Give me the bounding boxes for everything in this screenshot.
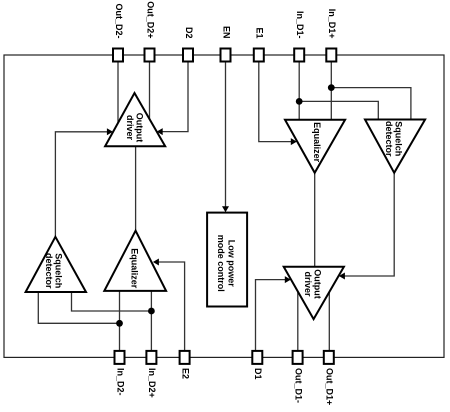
svg-text:In_D1+: In_D1+ bbox=[327, 9, 337, 39]
arrowhead E2 into equalizer U6 bbox=[153, 259, 159, 266]
chip boundary box bbox=[4, 55, 444, 357]
svg-text:Out_D2+: Out_D2+ bbox=[145, 1, 155, 38]
arrowhead squelch detector U7 into output driver U2 bbox=[107, 128, 113, 135]
wire equalizer U6 output to output driver U2 input bbox=[135, 146, 137, 230]
pin E2 bbox=[180, 351, 191, 379]
wire EN pin to low power mode control bbox=[225, 62, 227, 208]
junction In_D2+ node bbox=[148, 308, 155, 315]
pin Out_D1+ bbox=[324, 351, 335, 405]
wire equalizer U3 output to output driver U5 input bbox=[314, 173, 316, 267]
svg-text:Equalizer: Equalizer bbox=[130, 248, 140, 289]
wire E2 pin to equalizer U6 bbox=[158, 262, 185, 351]
arrowhead EN into low power mode control bbox=[222, 206, 229, 212]
svg-text:In_D1-: In_D1- bbox=[295, 11, 305, 39]
wire output driver U5 to Out_D1- pin bbox=[297, 292, 299, 351]
junction In_D1+ node bbox=[328, 84, 335, 91]
pin In_D1- bbox=[294, 11, 305, 62]
output driver U5 (channel 1, bottom-right) bbox=[284, 267, 344, 319]
svg-text:Squelchdetector: Squelchdetector bbox=[44, 253, 64, 289]
wire output driver U5 to Out_D1+ pin bbox=[328, 291, 330, 351]
junction In_D2- node bbox=[116, 320, 123, 327]
svg-text:Equalizer: Equalizer bbox=[312, 122, 322, 163]
arrowhead E1 into equalizer U3 bbox=[291, 138, 297, 145]
pin Out_D1- bbox=[293, 351, 304, 403]
wire In_D1- branch to squelch detector U4 bbox=[299, 101, 378, 119]
pin D2 bbox=[183, 27, 194, 62]
wire squelch detector U7 output to output driver U2 bbox=[55, 132, 107, 237]
squelch detector U7 (channel 2, bottom-left) bbox=[26, 237, 86, 292]
svg-text:Out_D2-: Out_D2- bbox=[114, 3, 124, 38]
arrowhead squelch detector U4 into output driver U5 bbox=[339, 273, 345, 280]
equalizer U3 (channel 1, top-right) bbox=[285, 120, 345, 173]
svg-text:E2: E2 bbox=[180, 368, 190, 379]
wire D2 pin to output driver U2 bbox=[162, 62, 189, 132]
low power mode control block U1 bbox=[207, 213, 247, 307]
svg-text:Out_D1+: Out_D1+ bbox=[325, 368, 335, 405]
wire squelch detector U4 output to output driver U5 bbox=[344, 173, 395, 276]
svg-text:E1: E1 bbox=[255, 27, 265, 38]
svg-text:Out_D1-: Out_D1- bbox=[293, 368, 303, 403]
arrowhead D2 into output driver U2 bbox=[157, 128, 163, 135]
svg-text:In_D2-: In_D2- bbox=[115, 368, 125, 396]
wire In_D2- pin to equalizer U6 input bbox=[119, 291, 121, 351]
wire In_D2+ pin to equalizer U6 input bbox=[150, 291, 152, 351]
squelch detector U4 (channel 1, top-right) bbox=[365, 120, 425, 173]
wire D1 pin to output driver U5 bbox=[256, 280, 286, 351]
equalizer U6 (channel 2, bottom-left) bbox=[104, 231, 166, 291]
pin In_D2+ bbox=[146, 351, 157, 398]
pin EN bbox=[221, 26, 232, 62]
arrowhead D1 into output driver U5 bbox=[285, 276, 291, 283]
pin In_D2- bbox=[115, 351, 126, 396]
pin E1 bbox=[254, 27, 265, 61]
pin In_D1+ bbox=[326, 9, 337, 62]
svg-text:D1: D1 bbox=[253, 368, 263, 380]
pin Out_D2- bbox=[113, 3, 124, 61]
output driver U2 (channel 2, top-left) bbox=[105, 93, 165, 146]
svg-text:Low powermode control: Low powermode control bbox=[216, 235, 237, 292]
svg-text:D2: D2 bbox=[184, 27, 194, 39]
pin D1 bbox=[252, 351, 263, 380]
svg-text:Squelchdetector: Squelchdetector bbox=[384, 121, 404, 157]
pin Out_D2+ bbox=[145, 1, 156, 61]
svg-text:Outputdriver: Outputdriver bbox=[125, 113, 145, 143]
wire In_D2- branch to squelch detector U7 bbox=[38, 292, 119, 323]
wire Out_D2- pin to output driver U2 left edge bbox=[117, 62, 119, 124]
wire In_D1- pin to equalizer U3 input bbox=[298, 62, 300, 120]
svg-text:EN: EN bbox=[221, 26, 231, 39]
wire In_D2+ branch to squelch detector U7 bbox=[72, 292, 152, 311]
wire Out_D2+ pin to output driver U2 right edge bbox=[149, 62, 151, 121]
junction In_D1- node bbox=[296, 98, 303, 105]
wire E1 pin to equalizer U3 bbox=[259, 62, 292, 142]
wire In_D1+ pin to equalizer U3 input bbox=[330, 62, 332, 120]
wire In_D1+ branch to squelch detector U4 bbox=[331, 88, 411, 120]
svg-text:In_D2+: In_D2+ bbox=[147, 368, 157, 398]
svg-text:Outputdriver: Outputdriver bbox=[303, 269, 323, 299]
